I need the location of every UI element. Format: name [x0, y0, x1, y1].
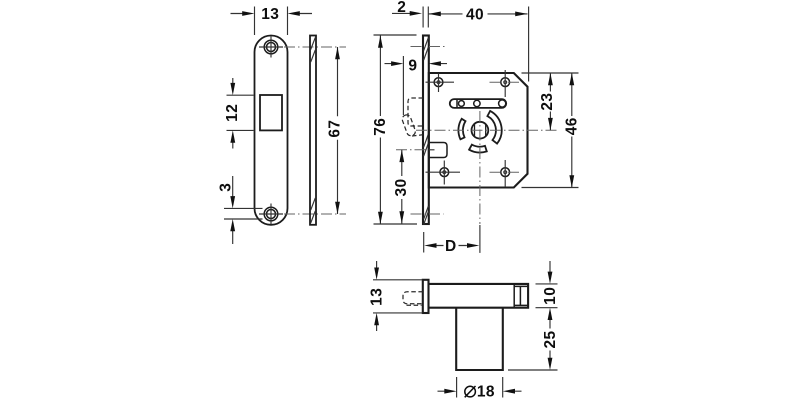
strike plate outline — [255, 36, 288, 225]
dimension 25 — [508, 319, 558, 370]
dimension 12 (cutout height) — [227, 78, 254, 149]
faceplate hatching — [424, 38, 429, 225]
screw hole bottom-right — [501, 168, 510, 177]
svg-text:40: 40 — [466, 7, 484, 24]
svg-text:9: 9 — [408, 57, 417, 74]
svg-text:30: 30 — [393, 178, 410, 196]
cam arc left — [458, 119, 465, 139]
dimension 30 — [401, 150, 403, 224]
centerline top hole — [284, 46, 346, 48]
horizontal centerline lock case — [416, 129, 557, 131]
cylinder follower circle — [472, 122, 489, 139]
dimension 67 (hole spacing) — [337, 47, 339, 214]
svg-text:76: 76 — [372, 118, 389, 136]
centerline bottom hole through plate — [411, 213, 444, 215]
centerline bottom hole — [284, 213, 346, 215]
svg-text:D: D — [445, 238, 457, 255]
strip hatching — [311, 38, 316, 224]
dimension 13 (plate width) — [231, 7, 313, 36]
slot pin circles — [459, 101, 465, 107]
deadbolt housing — [429, 143, 447, 158]
svg-text:13: 13 — [261, 6, 279, 23]
dimension 10 — [536, 261, 558, 308]
centerline deadbolt — [396, 149, 427, 151]
slot chord line — [456, 99, 458, 107]
cam arc right — [487, 111, 501, 144]
dimension D (backset) — [424, 232, 467, 253]
centerline top hole through plate — [411, 46, 448, 48]
dimension 13 (protrusion) — [373, 261, 423, 331]
latch cutout rectangle — [260, 95, 282, 130]
screw hole top-left — [434, 78, 443, 87]
svg-text:12: 12 — [224, 104, 241, 122]
adjusting slot — [450, 99, 506, 108]
svg-text:23: 23 — [539, 93, 556, 111]
dimension 40 (case depth) — [429, 7, 529, 82]
dimension 23 — [549, 73, 551, 130]
dimension 3 — [224, 176, 263, 244]
svg-text:13: 13 — [368, 288, 385, 306]
hidden cylinder outline — [408, 98, 423, 126]
cylinder end cap — [514, 284, 528, 308]
dimension diameter 18 — [438, 377, 522, 398]
svg-text:67: 67 — [326, 120, 343, 138]
hidden cylinder protrusion — [403, 292, 423, 304]
case bottom edge bar — [429, 284, 529, 308]
hidden cam tail — [412, 135, 423, 136]
screw hole top-right — [501, 78, 510, 87]
vertical centerline cylinder — [479, 111, 481, 224]
strike plate side profile strip — [310, 36, 316, 225]
faceplate side view — [423, 36, 429, 225]
cam arc bottom — [469, 145, 487, 153]
svg-text:18: 18 — [477, 384, 495, 400]
svg-text:25: 25 — [542, 330, 559, 348]
follower chords — [475, 124, 486, 136]
cylinder barrel — [456, 308, 503, 370]
faceplate bottom view — [423, 280, 429, 313]
dimension 9 (cylinder protrusion) — [385, 56, 448, 115]
screw hole bottom-left — [440, 168, 449, 177]
dimension 76 (plate height) — [374, 35, 418, 224]
svg-text:3: 3 — [217, 183, 234, 192]
bottom hole cross ticks — [259, 204, 283, 225]
dimension 46 — [522, 73, 579, 188]
bottom screw hole — [264, 207, 278, 221]
svg-text:46: 46 — [564, 117, 581, 135]
lock case body outline — [429, 73, 528, 188]
hidden cam capsule — [401, 114, 416, 137]
top screw hole — [264, 40, 278, 54]
svg-text:10: 10 — [542, 287, 559, 305]
top hole cross ticks — [259, 37, 283, 58]
